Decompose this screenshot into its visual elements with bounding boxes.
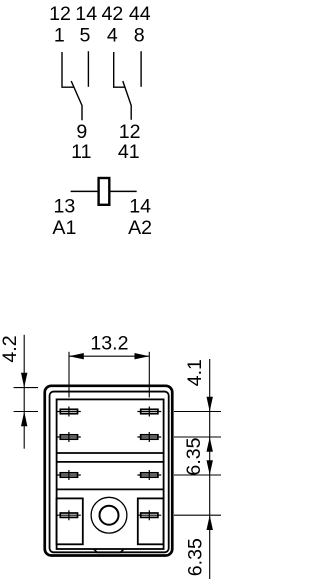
pin slot row3 left xyxy=(57,470,81,480)
bottom-left pin box xyxy=(57,498,83,544)
svg-text:5: 5 xyxy=(80,25,91,47)
svg-text:6.35: 6.35 xyxy=(184,538,206,576)
svg-text:12: 12 xyxy=(49,3,71,25)
dimension 4.2 arrow up xyxy=(21,412,27,427)
contact 2 NO lead (pins 44/8) xyxy=(140,51,142,87)
dimension 13.2 arrow left xyxy=(69,353,84,359)
contact 1 NO lead (pins 14/5) xyxy=(87,51,89,87)
right tick row2 xyxy=(174,436,221,438)
inner frame rect xyxy=(57,399,164,549)
right tick row4 xyxy=(174,514,221,516)
svg-text:4.1: 4.1 xyxy=(184,359,206,386)
dimension 4.2 tick bottom xyxy=(14,411,38,413)
right tick row3 xyxy=(174,474,221,476)
svg-text:4.2: 4.2 xyxy=(0,335,21,362)
coil element xyxy=(99,178,110,205)
svg-text:14: 14 xyxy=(129,195,151,217)
pin slot row1 right xyxy=(137,407,161,417)
dimension 13.2 arrow right xyxy=(135,353,150,359)
svg-text:9: 9 xyxy=(76,121,87,143)
pin slot row1 left xyxy=(57,407,81,417)
contact 2 movable arm xyxy=(123,81,131,120)
svg-text:14: 14 xyxy=(75,3,97,25)
svg-text:12: 12 xyxy=(119,121,141,143)
dimension 6.35a arrow down xyxy=(207,460,213,475)
body second outline xyxy=(50,392,169,553)
svg-text:44: 44 xyxy=(129,3,151,25)
contact 1 movable arm xyxy=(71,81,82,120)
coil right wire xyxy=(111,190,137,192)
svg-text:13.2: 13.2 xyxy=(90,333,128,355)
svg-text:8: 8 xyxy=(134,25,145,47)
divider line box1 bottom xyxy=(57,452,164,454)
divider line box2 top xyxy=(57,461,164,463)
svg-text:A1: A1 xyxy=(52,217,76,239)
bottom keying notch xyxy=(94,549,124,552)
svg-text:41: 41 xyxy=(118,141,140,163)
svg-text:11: 11 xyxy=(71,141,91,163)
dimension 13.2 line xyxy=(69,355,149,357)
dimension 13.2 extension right xyxy=(148,352,150,398)
dimension 4.2 line xyxy=(23,335,25,449)
dimension 4.1 arrow down xyxy=(207,397,213,412)
svg-text:A2: A2 xyxy=(128,217,152,239)
pin slot row4 left xyxy=(57,510,81,520)
dimension 6.35a arrow up xyxy=(207,437,213,452)
dimension 4.2 tick top xyxy=(14,387,38,389)
right tick row1 xyxy=(174,411,221,413)
pin slot row4 right xyxy=(137,510,161,520)
right dimension line xyxy=(209,359,211,579)
body outer outline xyxy=(45,386,173,556)
dimension 6.35b arrow up xyxy=(207,515,213,530)
dimension 4.2 arrow down xyxy=(21,373,27,388)
svg-text:4: 4 xyxy=(107,25,118,47)
svg-text:6.35: 6.35 xyxy=(183,437,205,475)
pin slot row2 right xyxy=(137,432,161,442)
pin slot row2 left xyxy=(57,432,81,442)
contact 2 NC lead (pins 42/4) xyxy=(114,52,126,87)
svg-text:1: 1 xyxy=(54,25,65,47)
bottom-right pin box xyxy=(138,498,164,544)
svg-text:42: 42 xyxy=(102,3,124,25)
center boss outer circle xyxy=(91,497,127,533)
contact 1 NC lead (pins 12/1) xyxy=(62,52,74,87)
divider line box2 bottom xyxy=(57,488,164,490)
svg-text:13: 13 xyxy=(54,195,76,217)
center boss inner circle xyxy=(100,506,119,525)
dimension 13.2 extension left xyxy=(68,352,70,398)
coil left wire xyxy=(71,190,98,192)
pin slot row3 right xyxy=(137,470,161,480)
